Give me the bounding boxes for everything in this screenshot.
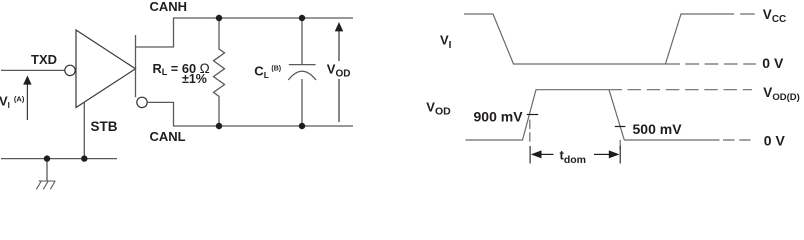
waveform VOD falling edge [609,90,624,140]
dashed vertical at 900mV crossing [529,120,531,145]
svg-text:500 mV: 500 mV [633,121,683,137]
svg-text:STB: STB [91,119,118,134]
wire ground stem [46,159,48,181]
input bubble on driver U1 [65,65,75,75]
waveform VI [464,14,721,64]
node junction dot CANL-RL [216,123,222,129]
dashed level VCC [720,13,757,15]
node junction dot CANH-CL [299,15,305,21]
svg-text:tdom: tdom [560,148,587,166]
svg-text:CANL: CANL [150,129,186,144]
arrow VOD measurement [335,22,343,122]
arrow VI measurement [23,76,31,121]
capacitor CL [301,18,303,65]
dashed vertical at 500mV crossing [619,140,621,150]
wire output bar at U1 apex [135,35,137,97]
wire STB pin [83,102,85,159]
waveform VOD low after pulse [624,139,719,141]
svg-text:0 V: 0 V [764,133,786,149]
driver U1 triangle [76,30,136,108]
tick 900mV on rising edge [527,114,538,116]
node junction dot CANL-CL [299,123,305,129]
dashed level 0V (VI) [666,63,756,65]
dimension tdom [530,146,620,164]
svg-text:VOD: VOD [426,99,451,117]
svg-text:TXD: TXD [31,52,57,67]
svg-text:VOD(D): VOD(D) [763,85,799,103]
svg-text:VCC: VCC [763,7,786,25]
tick 500mV on falling edge [615,126,626,128]
svg-text:900 mV: 900 mV [474,109,524,125]
wire CANL step from bubble to bottom rail [147,102,173,126]
svg-text:CANH: CANH [150,0,188,14]
resistor RL [214,18,225,126]
wire TXD input [1,69,65,71]
dashed level 0V (VOD) [723,139,751,141]
dashed level VOD(D) [628,89,753,91]
svg-text:±1%: ±1% [182,72,207,86]
svg-text:VI: VI [440,33,452,52]
svg-text:VOD: VOD [327,62,351,80]
waveform VOD rising portion [466,90,623,140]
wire ground rail [1,158,117,160]
node junction dot CANH-RL [216,15,222,21]
svg-text:0 V: 0 V [762,55,784,71]
wire CANH top rail [173,17,353,19]
node junction dot ground [44,155,50,161]
svg-text:CL(B): CL(B) [254,64,281,81]
svg-text:VI(A): VI(A) [0,94,25,111]
wire CANL bottom rail [173,125,353,127]
bubble CANL output of U1 [137,97,147,107]
ground symbol [36,181,55,189]
node junction dot STB-ground [81,155,87,161]
wire CANH step from driver to top rail [136,18,174,47]
